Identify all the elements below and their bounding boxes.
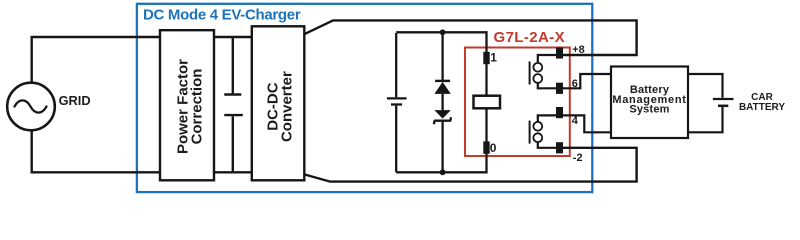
svg-text:1: 1	[490, 50, 497, 64]
capacitor C1 (between PFC and DC-DC)	[224, 37, 243, 172]
block Battery Management System	[611, 67, 688, 139]
wire: PFC to DC-DC top	[214, 36, 252, 38]
svg-text:Power FactorCorrection: Power FactorCorrection	[175, 59, 206, 154]
wire: inner bottom rail	[396, 153, 486, 172]
relay outline G7L-2A-X (red)	[465, 48, 570, 157]
contact A terminal (6 side)	[556, 83, 563, 94]
svg-text:+8: +8	[572, 44, 585, 56]
svg-text:System: System	[629, 104, 669, 116]
coil terminal 0	[483, 141, 489, 153]
block Power Factor Correction	[160, 30, 214, 180]
node: junction bottom rail / suppressor	[440, 169, 446, 175]
AC source GRID circle	[7, 83, 55, 131]
svg-text:G7L-2A-X: G7L-2A-X	[494, 29, 566, 46]
diode D2 (zener, cathode down)	[434, 94, 451, 172]
contact B terminal (-2 side)	[556, 142, 563, 153]
wire: DC- output, bottom cable run wrapping to relay contact (-2)	[304, 148, 636, 182]
relay contact B (bottom pole)	[530, 115, 557, 147]
svg-text:-2: -2	[573, 152, 583, 164]
wire: BMS to car battery top	[688, 74, 723, 98]
diode D1 (suppressor, cathode up)	[434, 32, 450, 94]
block DC-DC Converter	[252, 26, 304, 180]
contact B terminal (4 side)	[556, 107, 563, 118]
svg-text:GRID: GRID	[59, 93, 91, 108]
capacitor C2 (DC link)	[387, 33, 407, 172]
svg-text:BATTERY: BATTERY	[739, 102, 785, 113]
wire: contact 6 to BMS	[563, 74, 611, 88]
svg-text:0: 0	[490, 141, 497, 155]
wire: DC+ output, top cable run wrapping to relay contact (+8)	[304, 20, 636, 55]
wire: BMS to car battery bottom	[688, 107, 723, 132]
contact A terminal (+8 side)	[556, 47, 563, 58]
svg-text:4: 4	[572, 115, 579, 127]
node: junction top rail / suppressor	[440, 29, 446, 35]
wire: contact 4 to BMS	[563, 115, 611, 132]
battery B1 (car battery symbol)	[713, 99, 734, 106]
wire: PFC to DC-DC bottom	[214, 171, 252, 173]
sine wave inside AC source	[15, 100, 47, 112]
wire: inner top rail	[396, 32, 486, 52]
wire: grid top to PFC	[32, 37, 160, 83]
coil terminal 1	[483, 52, 489, 64]
charger block boundary (blue)	[137, 4, 592, 192]
wire: grid bottom to PFC	[32, 130, 160, 172]
svg-text:DC Mode 4 EV-Charger: DC Mode 4 EV-Charger	[143, 6, 301, 23]
relay contact A (top pole)	[530, 55, 557, 88]
relay coil K1	[474, 64, 501, 143]
